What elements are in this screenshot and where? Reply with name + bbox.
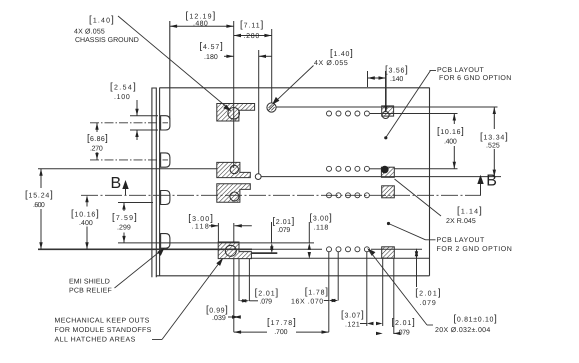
tab 2 centerline [90,159,168,161]
EMI shield tab 2 [161,153,170,167]
dim line 16x.070 leader [324,300,329,302]
svg-text:.525: .525 [486,143,500,150]
svg-text:[13.34]: [13.34] [480,132,508,143]
svg-text:[1.78]: [1.78] [305,287,329,298]
small hole on centerline x258 [255,174,261,180]
arrows dim 3.00 right lens [308,243,311,250]
svg-text:[0.81±0.10]: [0.81±0.10] [454,314,498,325]
keepout box mid-left upper [217,162,251,177]
dim 4.57 leader [224,55,234,57]
line row2 right refs [394,168,457,170]
chassis ground hole in mid-left upper keepout [230,165,238,173]
dim line 2.01 bottom-left leader [249,300,258,302]
svg-text:.039: .039 [212,315,226,322]
keepout box mid-left lower [217,184,251,203]
svg-text:.280: .280 [244,33,260,40]
pad line lower [252,257,430,259]
ext line tab1 bottom [130,129,158,131]
chassis ground hole top right [267,103,276,112]
hole row 2 [327,166,370,171]
svg-text:CHASSIS GROUND: CHASSIS GROUND [75,37,139,44]
svg-text:[3.00]: [3.00] [310,213,333,224]
svg-text:[10.16]: [10.16] [437,126,464,137]
svg-text:ALL HATCHED AREAS: ALL HATCHED AREAS [55,336,136,343]
EMI shield finger edge upper segment [169,21,171,120]
row4 baseline left part2 [252,248,322,250]
bottom verticals from row4 [328,252,330,332]
leader 2x r.045 [395,179,442,216]
svg-text:.079: .079 [420,300,437,307]
left dim vert x124 [123,203,125,212]
left dim vert x41 [40,169,42,188]
svg-text:[2.01]: [2.01] [392,317,416,328]
svg-text:.180: .180 [204,54,218,61]
svg-text:EMI SHIELD: EMI SHIELD [69,279,110,286]
arrows dim 7.11 [234,34,241,37]
dim line 17.78 [234,331,267,333]
arrows dim 17.78 [234,330,241,333]
hole at row1 right keepout [382,112,389,119]
svg-text:4X Ø.055: 4X Ø.055 [74,28,105,36]
ext vert right dim x454.3 [453,114,455,125]
arrows dim 7.59 [122,203,125,210]
leader chassis ground [115,16,442,340]
svg-text:.400: .400 [444,139,457,146]
module outline right edge [429,88,431,276]
svg-text:[2.01]: [2.01] [415,288,441,299]
svg-text:[6.86]: [6.86] [87,133,108,144]
top dim line 12.19 [170,25,234,27]
arrows dim 2.01 lens mid [270,243,273,250]
leader vert for 3.00 right label [308,222,310,243]
svg-text:[1.14]: [1.14] [457,206,482,217]
svg-text:[7.59]: [7.59] [112,212,137,223]
left dim vert x87 [86,197,88,207]
hole row 1 [327,111,370,116]
svg-text:.299: .299 [117,225,131,232]
arrows dim 16x .070 [329,299,336,302]
svg-text:FOR MODULE STANDOFFS: FOR MODULE STANDOFFS [55,327,152,334]
svg-text:[2.01]: [2.01] [255,288,279,299]
arrows dim 2.01 right lens [415,249,418,256]
module outline bottom edge [156,275,430,277]
hole in bottom-left keepout [225,245,236,256]
bottom verticals right [382,259,384,326]
main centerline [81,194,481,196]
svg-text:.270: .270 [90,146,103,153]
arrows dim 15.24 [39,169,42,176]
svg-text:[3.07]: [3.07] [341,310,364,321]
arrows dim 3.07 [367,322,374,325]
row4 baseline right [371,248,422,250]
svg-text:.121: .121 [345,322,360,329]
svg-text:4X Ø.055: 4X Ø.055 [314,59,348,67]
leader 2 gnd option [387,222,390,225]
svg-text:[10.16]: [10.16] [71,209,99,220]
keepout box top-left L-shape [217,104,255,122]
arrows dim 10.16 right [453,114,456,121]
svg-text:PCB LAYOUT: PCB LAYOUT [437,67,485,74]
arrows dim 2.54 [135,109,138,116]
dim line 0.99 leader [228,316,234,318]
arrows dim 0.99 [234,315,241,318]
svg-text:[3.56]: [3.56] [385,65,408,76]
EMI shield strip capped [152,88,156,277]
ext vert x258.7 [258,50,260,174]
keepout box row4 right [382,247,395,258]
svg-text:[1.40]: [1.40] [330,48,353,59]
ext vert x233.7 from top to mid box [233,21,235,168]
svg-text:[7.11]: [7.11] [240,20,264,31]
EMI shield tab 4 [161,234,170,249]
keepout box centerline right [382,186,395,198]
hole in mid-left lower keepout [230,192,239,201]
dim 3.00 left line [209,225,218,227]
leader 6 gnd option [386,71,431,138]
svg-text:B: B [111,175,122,192]
line row2 to right box [370,168,382,170]
svg-text:.079: .079 [397,329,410,336]
EMI shield tab 3 [161,191,170,205]
ext vert x367.5 [367,71,369,87]
hole at row2 right keepout (dark) [382,166,389,173]
module outline top edge [160,87,430,89]
ext line tab1 top [130,115,158,117]
dim line 2.01 mid leader [394,332,397,334]
svg-text:PCB LAYOUT: PCB LAYOUT [437,237,486,244]
svg-text:20X Ø.032±.004: 20X Ø.032±.004 [435,326,491,334]
ext vert right dim x494.3 [493,107,495,129]
ext vert x385.8 thick to hole [385,71,387,111]
leader 20x dia [367,248,375,256]
svg-text:PCB RELIEF: PCB RELIEF [69,288,112,295]
svg-text:.100: .100 [114,94,130,101]
dim 3.56 line [368,77,386,79]
dim vert x97 [96,123,98,132]
top dim line 7.11 [234,35,272,37]
ext vert for 3.00 left [217,223,219,242]
arrows dim 3.56 [368,76,375,79]
dim line 3.07 leader [360,323,367,325]
svg-text:[15.24]: [15.24] [25,190,53,201]
ext line y243 [118,242,314,244]
leader vert for 2.01 mid label [271,222,273,243]
svg-text:[2.01]: [2.01] [273,216,295,227]
svg-text:.079: .079 [260,299,273,306]
svg-text:.118: .118 [192,224,209,231]
svg-text:[1.40]: [1.40] [89,15,114,26]
section marker B left [111,175,129,195]
chassis ground hole in top-left keepout [228,108,240,120]
keepout box row2 right [381,167,394,177]
arrows dim 13.34 [493,107,496,114]
tab 1 centerline [90,122,168,124]
svg-text:FOR 2 GND OPTION: FOR 2 GND OPTION [437,246,513,253]
arrows dim 2.01 bottom-left [239,299,246,302]
arrow hole 3.56 pointer [384,106,387,113]
arrows dim 2.01 mid-bottom [376,332,383,335]
svg-text:FOR 6 GND OPTION: FOR 6 GND OPTION [439,75,512,82]
hole row 4 [327,247,370,252]
PCB edge line [159,88,161,276]
row4 baseline left [38,248,252,250]
arrows dim 12.19 [170,25,177,28]
line through small hole to right refs [261,176,501,178]
svg-text:2X R.045: 2X R.045 [446,218,476,225]
leader mechanical keepouts [152,339,162,341]
svg-text:[0.99]: [0.99] [206,305,228,316]
svg-text:[17.78]: [17.78] [267,317,296,328]
dim vert x137 [136,100,138,116]
svg-text:[3.00]: [3.00] [188,213,213,224]
arrows dim 4.57 [226,55,233,58]
section marker B right [477,173,497,196]
line from chassis hole to right refs [276,106,497,108]
line through row2 left portion [38,168,217,170]
leader emi shield [115,250,162,288]
ext vert x271.7 [271,29,273,103]
svg-text:.700: .700 [274,329,288,336]
keepout box bottom-left L-shape [218,242,251,259]
EMI shield tab 1 [161,116,170,130]
svg-text:.118: .118 [314,224,329,231]
arrows dim 10.16 left [85,195,88,202]
arrows dim 6.86 [95,123,98,130]
arrows dim 3.00 left [211,224,218,227]
svg-text:.600: .600 [33,202,45,209]
svg-text:16X .070: 16X .070 [291,299,323,306]
svg-text:[2.54]: [2.54] [110,82,136,93]
bottom verticals from keepout bottom-left [233,259,235,333]
ext line tab3 bottom [118,202,153,204]
line through row1 to right refs [370,113,458,115]
svg-text:.079: .079 [277,227,290,234]
svg-text:MECHANICAL KEEP OUTS: MECHANICAL KEEP OUTS [55,317,150,324]
svg-text:B: B [486,173,497,190]
svg-text:.480: .480 [193,21,208,28]
hole row 3 on centerline [327,193,370,198]
svg-text:.400: .400 [79,220,93,227]
leader 4x .055 right [274,66,313,103]
svg-text:[4.57]: [4.57] [200,41,224,52]
svg-text:.140: .140 [390,76,404,83]
keepout box row1 right [382,106,394,116]
pad bar thick [252,252,278,254]
